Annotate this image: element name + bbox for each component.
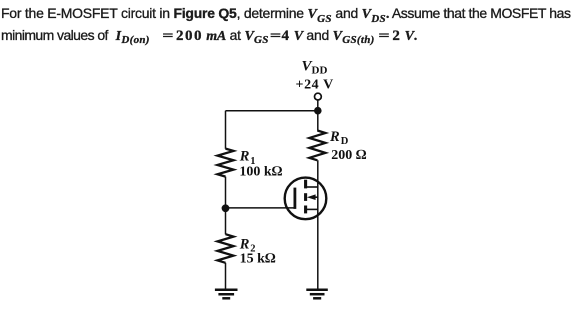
problem statement line 1	[1, 5, 571, 24]
wire gate lead	[226, 207, 295, 209]
wire top horizontal	[226, 110, 318, 112]
wire right rail drain-source through MOSFET	[317, 160, 319, 289]
ground left	[215, 290, 238, 299]
label 15 kohm	[240, 252, 276, 267]
wire left rail lower	[225, 263, 227, 290]
wire right rail upper	[317, 100, 319, 131]
transistor Q1 gate bar	[293, 188, 296, 209]
svg-text:+24 V: +24 V	[296, 78, 334, 93]
label R1	[239, 149, 256, 167]
label RD	[329, 129, 349, 147]
node junction dot left	[222, 204, 230, 212]
svg-text:200 Ω: 200 Ω	[331, 148, 367, 163]
transistor Q1 channel bar bottom	[304, 206, 307, 214]
wire left rail middle	[225, 177, 227, 235]
VDD terminal circle	[315, 93, 322, 100]
label 100 kohm	[239, 165, 282, 180]
label R2	[239, 236, 256, 254]
wire left rail upper	[225, 111, 227, 149]
svg-text:15 kΩ: 15 kΩ	[240, 252, 276, 267]
svg-text:100 kΩ: 100 kΩ	[239, 165, 282, 180]
svg-text:R: R	[239, 149, 250, 165]
transistor Q1 channel bar middle	[304, 193, 307, 201]
label +24 V	[296, 78, 334, 93]
wire substrate stub with arrow	[312, 196, 318, 198]
node junction dot right	[314, 107, 322, 115]
svg-text:R: R	[329, 129, 340, 145]
arrowhead substrate	[307, 194, 316, 200]
svg-text:D: D	[341, 136, 349, 147]
svg-text:DD: DD	[312, 65, 328, 77]
wire source stub	[306, 208, 318, 210]
transistor Q1 channel bar top	[304, 180, 307, 189]
resistor RD	[309, 131, 325, 161]
problem statement line 2	[1, 27, 417, 46]
wire drain stub	[306, 186, 318, 188]
label VDD	[302, 58, 328, 76]
svg-text:R: R	[239, 236, 250, 252]
ground right	[306, 290, 328, 299]
resistor R1	[218, 149, 234, 177]
resistor R2	[218, 234, 234, 263]
label 200 ohm	[331, 148, 367, 163]
transistor Q1 MOSFET body circle	[285, 178, 327, 220]
